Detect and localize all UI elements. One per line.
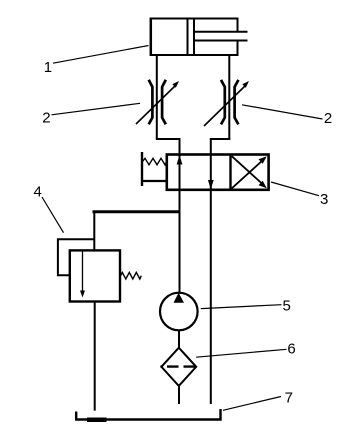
wire cylinder left port to valve — [156, 55, 181, 139]
svg-text:2: 2 — [324, 110, 332, 127]
tank 7 — [76, 409, 220, 420]
directional valve 3 spring and anchor — [141, 152, 167, 186]
pump 5 — [160, 293, 198, 331]
wire pump branch to relief valve (thick horizontal) — [93, 210, 181, 213]
directional valve 3 crossed-flow arrows (right position) — [232, 156, 267, 188]
label 7 — [223, 389, 293, 410]
wire pump to filter — [178, 330, 180, 348]
relief valve 4 — [70, 250, 142, 301]
wire valve to pump (vertical through valve, up-arrow line) — [179, 139, 181, 293]
label 3 — [271, 182, 328, 208]
svg-text:2: 2 — [42, 110, 50, 127]
cylinder 1 — [151, 18, 248, 57]
label 2 (right) — [242, 105, 332, 127]
wire relief valve drain to tank — [94, 302, 96, 411]
svg-text:4: 4 — [34, 183, 42, 200]
label 6 — [196, 340, 295, 357]
svg-text:3: 3 — [320, 191, 328, 208]
directional valve 3 straight-flow arrows (left position) — [177, 155, 214, 189]
throttle valve 2 (left) — [136, 80, 179, 125]
filter 6 — [161, 348, 198, 386]
svg-text:7: 7 — [285, 389, 293, 406]
relief valve 4 pilot line — [58, 239, 94, 275]
label 4 — [34, 183, 64, 232]
wire cylinder right port to valve — [210, 55, 231, 139]
label 2 (left) — [42, 103, 140, 126]
wire filter to tank — [178, 386, 180, 404]
wire branch down to relief valve — [93, 211, 95, 252]
directional valve 3 body — [167, 155, 269, 190]
svg-text:1: 1 — [44, 59, 52, 76]
throttle valve 2 (right) — [204, 80, 249, 126]
wire valve to tank (vertical through valve, down-arrow line) — [210, 139, 212, 404]
label 5 — [201, 297, 291, 314]
label 1 — [44, 46, 149, 77]
svg-text:5: 5 — [283, 297, 291, 314]
svg-text:6: 6 — [287, 340, 295, 357]
